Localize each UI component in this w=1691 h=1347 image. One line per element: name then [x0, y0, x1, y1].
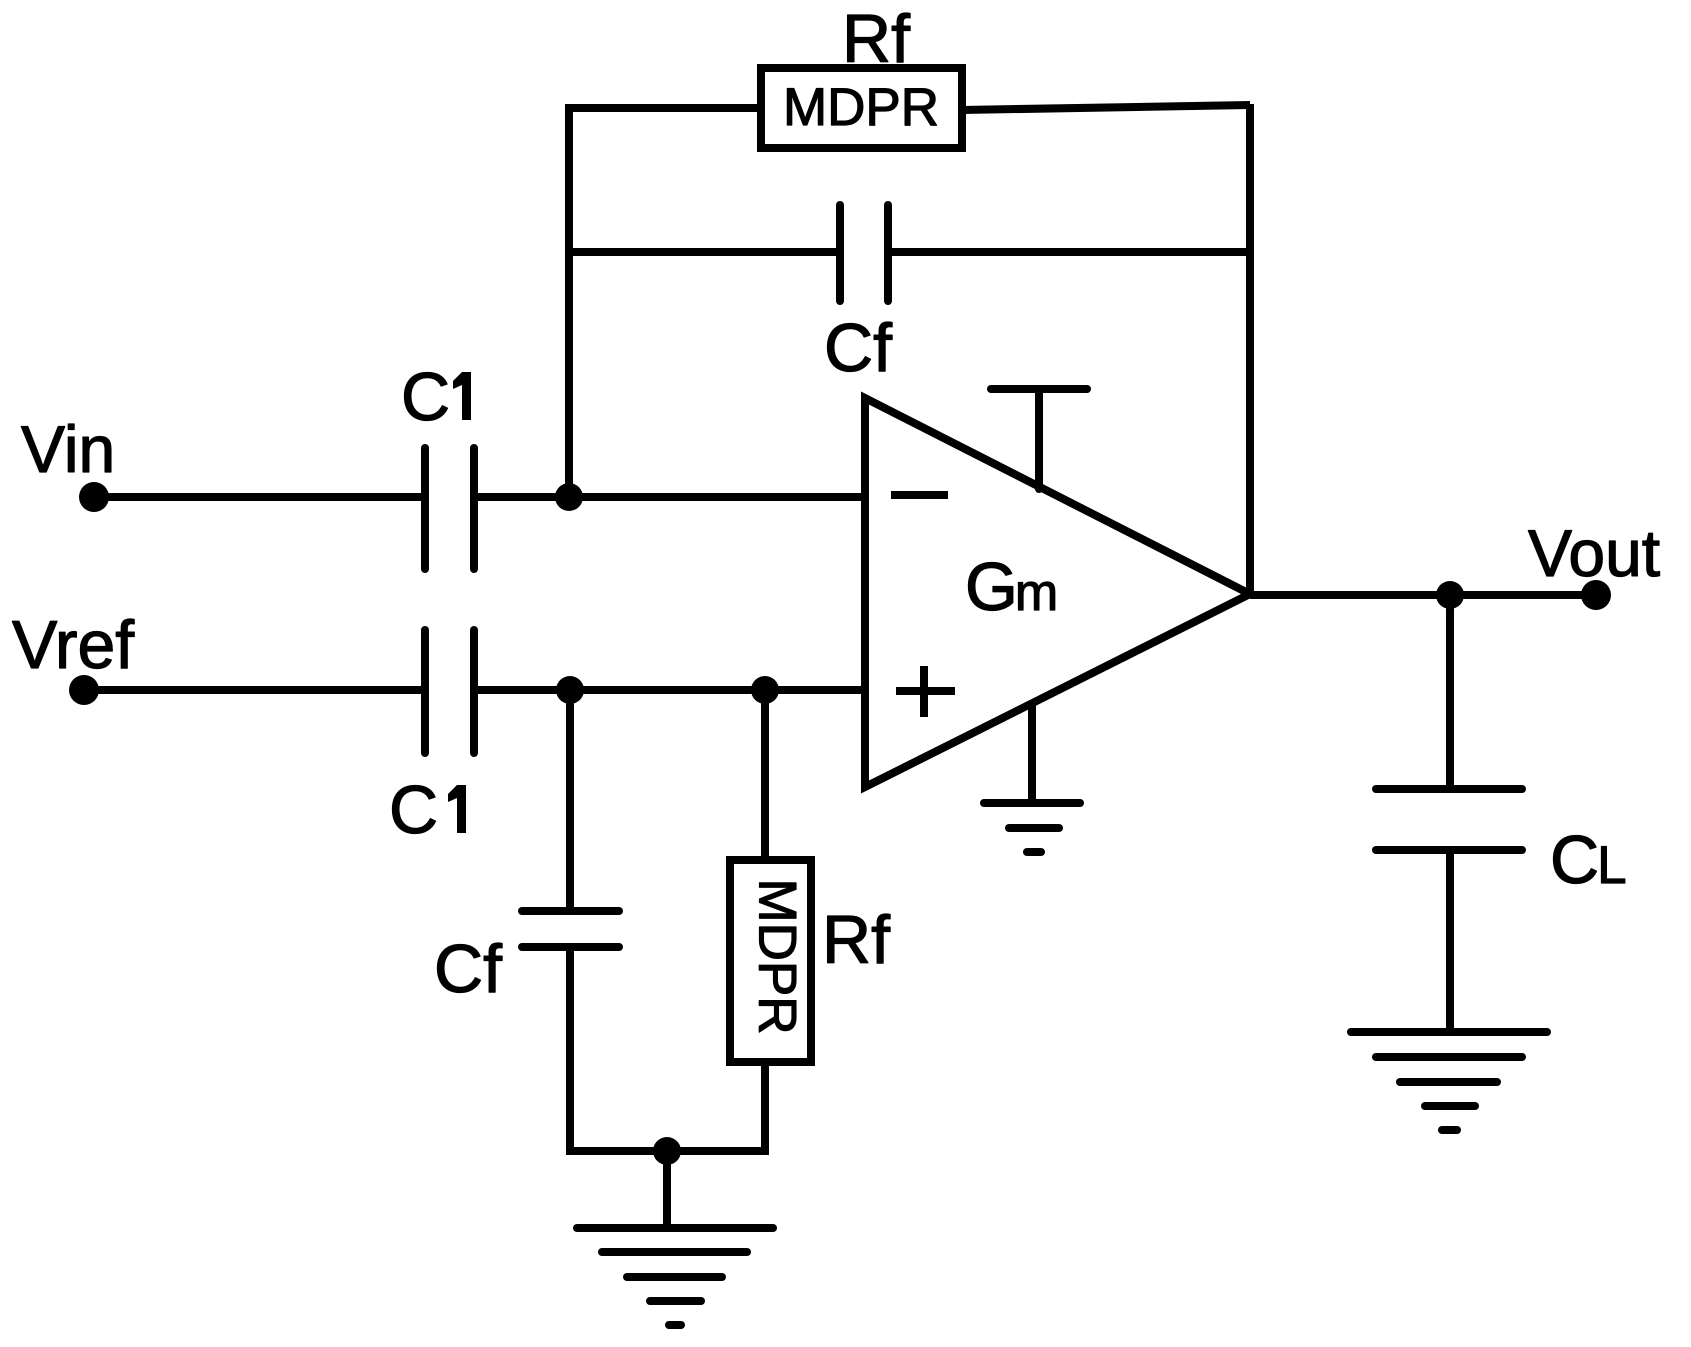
- capacitor C1 (top, in Vin path): [425, 448, 474, 569]
- label C1 (top): [401, 359, 471, 435]
- capacitor C1 (bottom, in Vref path): [425, 630, 474, 753]
- node Vout terminal dot: [1581, 580, 1611, 610]
- wire top feedback right segment: [962, 105, 1250, 110]
- wire Cf bottom plate down to ground rail: [566, 947, 574, 1151]
- wire output node down to CL: [1446, 595, 1454, 789]
- wire Vref to C1 bottom left plate: [84, 686, 421, 694]
- svg-text:MDPR: MDPR: [783, 78, 939, 137]
- wire Cf feedback right segment: [892, 248, 1250, 256]
- power supply bar on op-amp: [991, 389, 1087, 489]
- wire top feedback left segment: [565, 104, 761, 112]
- capacitor Cf (feedback): [840, 205, 888, 301]
- svg-text:C: C: [401, 359, 450, 435]
- pin minus (inverting input mark): [891, 491, 948, 499]
- capacitor Cf (bottom, to ground): [522, 911, 619, 947]
- wire vertical from node A up to feedback: [565, 104, 573, 497]
- wire node B down to Cf bottom: [566, 690, 574, 911]
- wire output from op-amp apex to Vout: [1250, 591, 1596, 599]
- ground (bottom middle): [577, 1228, 773, 1325]
- wire Vin to C1 top left plate: [94, 493, 421, 501]
- svg-text:Cf: Cf: [434, 931, 502, 1007]
- node E junction dot on output: [1436, 581, 1464, 609]
- wire C1 top right plate to op-amp inverting input: [478, 493, 865, 501]
- ground (under CL): [1351, 1032, 1547, 1130]
- wire CL bottom plate to ground: [1446, 850, 1454, 1032]
- svg-text:Rf: Rf: [842, 1, 910, 77]
- wire Cf feedback left segment: [569, 248, 836, 256]
- resistor Rf (MDPR box, feedback): [761, 68, 962, 148]
- wire node C down to MDPR box top: [761, 690, 769, 860]
- node C junction dot (Rf branch): [751, 676, 779, 704]
- wire ground stem from node D: [663, 1151, 671, 1228]
- svg-text:Vin: Vin: [21, 412, 115, 486]
- pin plus (non-inverting input mark): [896, 666, 955, 717]
- wire op-amp ground stem: [1028, 704, 1036, 803]
- wire bottom ground rail horizontal: [566, 1147, 769, 1155]
- resistor Rf (MDPR box, to ground): [730, 860, 811, 1062]
- ground (op-amp): [984, 803, 1080, 852]
- svg-text:MDPR: MDPR: [748, 878, 807, 1034]
- capacitor CL (load): [1376, 789, 1522, 850]
- node A junction dot on Vin line: [555, 483, 583, 511]
- op-amp U1 Gm triangle: [865, 398, 1250, 787]
- svg-text:Vout: Vout: [1528, 516, 1660, 590]
- wire right feedback vertical down to output node: [1246, 104, 1254, 595]
- wire MDPR box bottom to ground rail: [761, 1062, 769, 1151]
- svg-text:Rf: Rf: [822, 902, 890, 978]
- node B junction dot (Cf branch): [556, 676, 584, 704]
- node Vin terminal dot: [79, 482, 109, 512]
- svg-text:C: C: [389, 772, 438, 848]
- svg-text:Vref: Vref: [12, 607, 134, 683]
- node Vref terminal dot: [69, 675, 99, 705]
- svg-text:Cf: Cf: [824, 310, 892, 386]
- label C1 (bottom): [389, 772, 466, 848]
- wire C1 bottom right plate to op-amp non-inverting input: [478, 686, 865, 694]
- node D junction dot on ground rail: [653, 1137, 681, 1165]
